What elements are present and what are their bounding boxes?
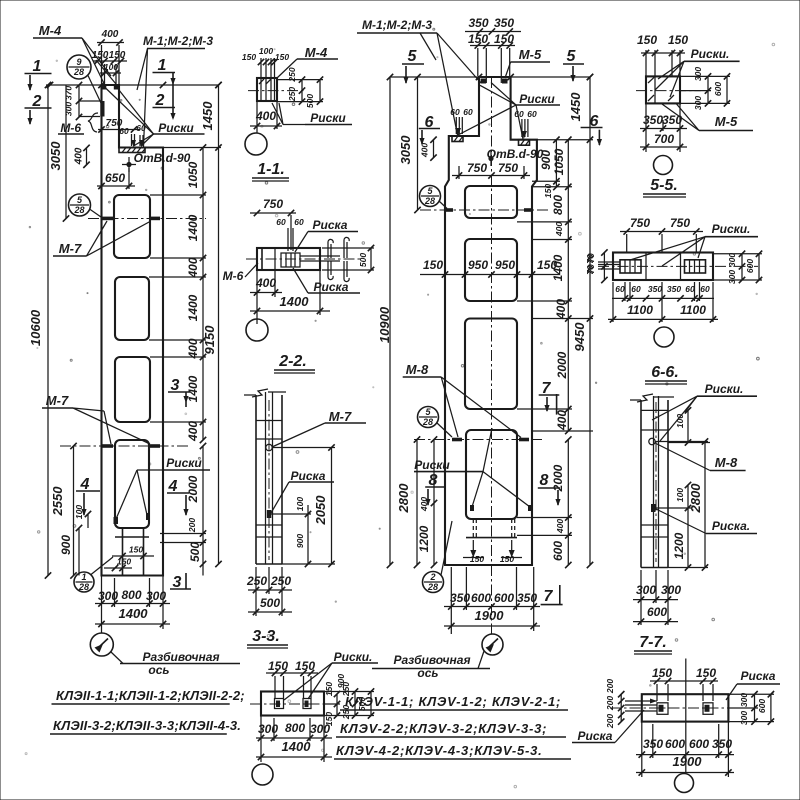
middle column shoulder plate left hatched: [452, 136, 463, 142]
svg-text:100: 100: [675, 488, 685, 502]
svg-text:Риски: Риски: [519, 92, 555, 106]
svg-text:1900: 1900: [673, 754, 703, 769]
svg-text:70: 70: [585, 254, 595, 264]
section 1-1 circle: [245, 133, 267, 155]
svg-text:М-6: М-6: [60, 121, 81, 135]
svg-text:9450: 9450: [572, 322, 587, 352]
svg-text:950: 950: [468, 258, 488, 272]
bottom view circle: [252, 764, 273, 785]
section 3-3 circle marker: [266, 444, 272, 450]
dim 370 300 at M-6 plate: [78, 85, 80, 117]
svg-text:750: 750: [498, 161, 518, 175]
svg-text:60: 60: [463, 107, 473, 117]
svg-text:300: 300: [693, 67, 703, 81]
section 1-1 square: [257, 78, 277, 101]
svg-text:7: 7: [544, 588, 554, 605]
bottom view insert left: [275, 699, 284, 709]
section 2-2 divider 400: [274, 248, 276, 270]
svg-text:300: 300: [661, 583, 681, 597]
section 7-7 axis vertical: [655, 402, 657, 562]
left column axis line 2: [60, 445, 190, 447]
leader Riska right: [726, 684, 737, 700]
svg-text:350: 350: [494, 16, 514, 30]
section 3-3 dim 100: [307, 505, 309, 514]
middle column opening 1: [465, 186, 517, 218]
svg-text:1200: 1200: [417, 525, 431, 552]
svg-text:М-7: М-7: [329, 409, 352, 424]
left column opening 3: [115, 357, 150, 422]
svg-text:Риски: Риски: [158, 121, 194, 135]
section 3-3 axis vertical: [268, 400, 270, 560]
bottom right plan anchor lines: [625, 700, 657, 702]
svg-text:250: 250: [270, 574, 291, 588]
svg-text:300: 300: [727, 270, 737, 284]
dim 2800 mid left: [416, 440, 418, 566]
svg-text:1400: 1400: [280, 294, 310, 309]
circle mark 5/28 at hole level: [69, 194, 91, 216]
svg-text:1200: 1200: [672, 532, 686, 559]
svg-text:1: 1: [158, 57, 167, 74]
section 3-3 risk mark: [267, 510, 272, 518]
mid axis2 risk left: [452, 438, 462, 442]
leader Riska upper 2-2: [295, 232, 308, 253]
svg-text:ось: ось: [417, 666, 438, 680]
risk mark mid slot left: [470, 505, 474, 511]
bottom view right dim 500: [370, 692, 372, 716]
section 2-2 bar: [257, 248, 320, 270]
leaders M-8 mid: [441, 377, 458, 437]
M-6 curly brace: [88, 113, 98, 132]
bottom right insert left: [657, 703, 668, 715]
svg-text:Риски.: Риски.: [691, 47, 730, 61]
svg-text:400: 400: [255, 276, 276, 290]
svg-text:200: 200: [605, 679, 615, 694]
dim 100 left bottom: [87, 514, 89, 528]
svg-text:М-7: М-7: [46, 393, 69, 408]
svg-text:350: 350: [662, 113, 682, 127]
leader 5/28 mid axis1: [439, 201, 447, 209]
svg-text:600: 600: [757, 699, 767, 713]
leader axis circle mid: [478, 651, 484, 669]
svg-text:1: 1: [81, 572, 86, 582]
left column opening 4 bottom: [115, 440, 149, 528]
svg-text:300: 300: [636, 583, 656, 597]
leaders Riski to bolts and top plates: [134, 134, 154, 146]
svg-text:400: 400: [554, 222, 564, 237]
left column M-6 side plate: [100, 101, 104, 117]
svg-text:Риска: Риска: [578, 729, 613, 743]
svg-text:1050: 1050: [552, 148, 566, 175]
svg-text:9: 9: [76, 57, 81, 67]
dim 400 left corbel mid: [433, 140, 435, 158]
risk mark mid slot right: [528, 505, 532, 511]
svg-text:1: 1: [33, 58, 42, 75]
svg-text:350: 350: [667, 284, 681, 294]
svg-text:ось: ось: [148, 663, 169, 677]
svg-text:150: 150: [470, 554, 484, 564]
section 2-2 anchor hook bolts right pair: [344, 237, 349, 258]
dim chain mid right x568: [567, 140, 569, 431]
svg-text:600: 600: [689, 737, 709, 751]
middle column axis line 2: [414, 439, 543, 441]
svg-text:Риска: Риска: [313, 218, 348, 232]
svg-text:150: 150: [117, 557, 131, 567]
leader Riska 3-3: [271, 482, 289, 513]
bottom right plan rect: [642, 694, 729, 721]
svg-text:60: 60: [119, 126, 129, 136]
svg-text:500: 500: [358, 253, 368, 267]
svg-text:300: 300: [727, 253, 737, 267]
scan speckles: [261, 125, 263, 127]
svg-text:400: 400: [186, 338, 200, 359]
leader axis circle: [111, 652, 123, 664]
svg-text:Риски: Риски: [166, 456, 202, 470]
leader Riska 7-7: [656, 509, 706, 534]
left column opening 2: [115, 277, 149, 340]
bottom view right dims 250 250: [354, 692, 356, 716]
bottom right plan right dims 300 300 600: [754, 694, 756, 721]
section 2-2 anchor lines: [300, 255, 340, 257]
svg-text:750: 750: [263, 197, 283, 211]
dim 1450 right outer top: [218, 85, 220, 148]
svg-text:Риска.: Риска.: [712, 519, 750, 533]
svg-text:300: 300: [310, 722, 330, 736]
section 3-3 inner lines: [265, 392, 267, 564]
svg-text:5: 5: [77, 195, 83, 205]
section 3-3 dim 900: [307, 514, 309, 564]
svg-text:М-4: М-4: [39, 23, 62, 38]
middle column opening 2: [465, 239, 517, 301]
section 7-7 dim 100 mid: [687, 485, 689, 508]
section 1-1 inner plate lines: [260, 78, 262, 101]
svg-text:100: 100: [675, 414, 685, 428]
svg-text:1400: 1400: [186, 294, 200, 321]
svg-text:400: 400: [419, 497, 429, 512]
svg-text:60: 60: [276, 217, 286, 227]
section 1-1 right dims 250 250 500: [301, 80, 303, 102]
svg-text:Риска: Риска: [314, 280, 349, 294]
svg-text:Риска: Риска: [741, 669, 776, 683]
svg-text:1100: 1100: [680, 303, 706, 317]
svg-text:2-2.: 2-2.: [278, 353, 307, 370]
svg-text:2000: 2000: [551, 464, 565, 492]
svg-text:150: 150: [242, 52, 256, 62]
svg-text:28: 28: [73, 205, 84, 215]
leader M-5 mid: [505, 62, 511, 78]
svg-text:150: 150: [637, 33, 657, 47]
section 6-6 anchor lines left: [598, 261, 620, 263]
svg-text:60: 60: [450, 107, 460, 117]
svg-text:Риски.: Риски.: [712, 222, 751, 236]
svg-text:Риски: Риски: [414, 458, 450, 472]
bottom right plan left dims 200 200 200: [620, 694, 622, 721]
svg-text:1450: 1450: [200, 101, 215, 131]
svg-text:750: 750: [630, 216, 650, 230]
dim chain mid right bottom: [567, 440, 569, 566]
svg-text:КЛЭV-1-1; КЛЭV-1-2; КЛЭV-2-1;: КЛЭV-1-1; КЛЭV-1-2; КЛЭV-2-1;: [345, 694, 561, 709]
svg-text:200: 200: [187, 518, 197, 533]
leader M-4 to top plates: [82, 38, 104, 84]
risk mark left inner O4: [114, 517, 119, 524]
left column axis 1 risk mark left: [101, 217, 113, 221]
svg-text:8: 8: [540, 472, 549, 489]
svg-text:60: 60: [514, 109, 524, 119]
svg-text:28: 28: [73, 67, 84, 77]
bottom right plan axis vertical: [685, 659, 687, 774]
section 7-7 cross lines: [641, 409, 668, 411]
svg-text:Разбивочная: Разбивочная: [393, 653, 470, 667]
leaders Riski bottom view: [284, 663, 332, 700]
svg-text:350: 350: [468, 16, 488, 30]
svg-text:800: 800: [121, 588, 141, 602]
svg-text:600: 600: [471, 591, 491, 605]
section 5-5 square: [646, 76, 680, 103]
dim 10600 left outer: [47, 85, 49, 576]
dim 400 mid left inner: [433, 440, 435, 504]
axis circle bottom mid: [482, 634, 503, 655]
left column corbel plate hatched: [119, 148, 145, 153]
svg-text:900: 900: [295, 534, 305, 548]
section 6-6 plate left: [620, 260, 641, 273]
svg-text:10600: 10600: [28, 309, 43, 346]
section 3-3 cross lines: [256, 420, 282, 422]
svg-text:2: 2: [429, 572, 435, 582]
svg-text:Риски: Риски: [310, 111, 346, 125]
svg-text:Риски.: Риски.: [334, 650, 373, 664]
svg-text:3050: 3050: [398, 135, 413, 165]
section 2-2 dim 500 right: [370, 248, 372, 270]
svg-text:100: 100: [259, 46, 273, 56]
svg-text:ОтВ.d-90: ОтВ.d-90: [487, 147, 544, 161]
svg-text:150: 150: [129, 545, 143, 555]
section 2-2 left cap line: [261, 248, 263, 270]
bottom view plate (left): [261, 692, 324, 716]
svg-text:60: 60: [700, 284, 710, 294]
top boundary line of left view: [46, 84, 219, 86]
svg-text:350: 350: [712, 737, 732, 751]
svg-text:1400: 1400: [119, 606, 149, 621]
section 7-7 dim 100 top: [687, 410, 689, 442]
svg-text:М-7: М-7: [59, 241, 82, 256]
section 7-7 dim 2800: [704, 442, 706, 568]
section 5-5 top dim lines: [645, 50, 647, 76]
svg-text:950: 950: [495, 258, 515, 272]
svg-text:600: 600: [713, 82, 723, 96]
svg-text:5-5.: 5-5.: [650, 177, 678, 194]
leader 9/28 to M-6 plate: [88, 76, 101, 104]
leaders Riski 1-1: [283, 124, 305, 126]
leaders Riski mid top: [491, 83, 516, 106]
leader M-8 7-7: [655, 443, 710, 471]
leader M-7 3-3: [272, 423, 325, 447]
leader M-4 1-1: [277, 59, 297, 78]
dim chain right inner x203: [202, 148, 204, 441]
section 6-6 axis: [598, 265, 758, 267]
bottom right circle: [675, 774, 694, 793]
leader 5/28 to axis mark: [90, 209, 102, 217]
section 6-6 plan rect: [613, 253, 713, 281]
svg-text:100: 100: [295, 497, 305, 511]
section 3-3 bar outline: [255, 395, 257, 564]
svg-text:1100: 1100: [627, 303, 653, 317]
svg-text:150: 150: [652, 666, 672, 680]
svg-text:2550: 2550: [50, 486, 65, 517]
svg-text:650: 650: [105, 171, 125, 185]
svg-text:600: 600: [647, 605, 667, 619]
leader 2/28: [441, 521, 452, 575]
svg-text:2800: 2800: [688, 483, 703, 514]
svg-text:350: 350: [450, 591, 470, 605]
dim 1200 mid left inner: [433, 503, 435, 565]
svg-text:60: 60: [136, 123, 146, 133]
left shoulder bolts: [455, 117, 457, 134]
svg-text:5: 5: [427, 186, 433, 196]
svg-text:400: 400: [555, 519, 565, 534]
section 6-6 circle: [654, 327, 674, 347]
svg-text:5: 5: [408, 48, 418, 65]
mid axis1 risk right: [524, 208, 532, 212]
risk mark right inner O4: [146, 513, 150, 520]
svg-text:7-7.: 7-7.: [639, 634, 667, 651]
svg-text:350: 350: [648, 284, 662, 294]
dim 10900 left outer mid: [389, 77, 391, 565]
leaders Riski 6-6: [630, 237, 705, 260]
svg-text:М-1;М-2;М-3: М-1;М-2;М-3: [362, 18, 432, 32]
svg-text:400: 400: [420, 143, 430, 158]
svg-text:2000: 2000: [555, 351, 569, 379]
svg-text:60: 60: [685, 284, 695, 294]
svg-text:М-8: М-8: [715, 455, 738, 470]
dim 3050 left: [65, 85, 67, 219]
left column axis line 1: [88, 218, 206, 220]
bottom view axis: [250, 703, 332, 705]
middle column vertical axis: [491, 77, 493, 565]
dim 9450 right outer mid: [589, 77, 591, 565]
svg-text:60: 60: [615, 284, 625, 294]
svg-text:400: 400: [186, 421, 200, 442]
section 6-6 inner dividers: [645, 253, 647, 281]
svg-text:60: 60: [631, 284, 641, 294]
svg-text:60: 60: [294, 217, 304, 227]
svg-text:28: 28: [427, 582, 438, 592]
svg-text:9150: 9150: [202, 325, 217, 355]
section 5-5 axis: [636, 90, 701, 92]
section 2-2 axis: [246, 258, 360, 260]
svg-text:1-1.: 1-1.: [257, 161, 285, 178]
leaders Riski 5-5: [658, 61, 684, 79]
svg-text:1450: 1450: [568, 92, 583, 122]
svg-text:2800: 2800: [396, 483, 411, 514]
svg-text:2000: 2000: [186, 475, 200, 503]
svg-text:2: 2: [155, 92, 165, 109]
leader 5/28 mid axis2: [437, 423, 452, 437]
leader Riska lower 2-2: [293, 268, 308, 293]
leaders Riski 7-7: [652, 396, 697, 420]
svg-text:900: 900: [539, 150, 553, 170]
svg-text:900: 900: [59, 535, 73, 555]
svg-text:60: 60: [527, 109, 537, 119]
section 5-5 right dims 300 300 600: [707, 76, 709, 103]
section 2-2 circle: [246, 319, 268, 341]
left column axis 2 risk mark right: [150, 444, 161, 448]
left column base slot lines: [115, 536, 149, 538]
dim chain right bottom: [202, 446, 204, 576]
section 7-7 circle marker: [649, 438, 655, 444]
svg-text:3-3.: 3-3.: [252, 628, 280, 645]
svg-text:400: 400: [555, 410, 569, 431]
svg-text:500: 500: [260, 596, 280, 610]
section 1-1 axis: [248, 90, 306, 92]
circle mark 5/28 mid axis2: [418, 407, 439, 428]
leaders Riski mid bottom: [483, 428, 492, 472]
svg-text:750: 750: [467, 161, 487, 175]
mid axis2 risk right: [519, 438, 529, 442]
bottom right plan axis horizontal: [610, 707, 756, 709]
top boundary line of middle view: [390, 76, 590, 78]
svg-text:400: 400: [74, 147, 85, 165]
leaders M-1 mid: [437, 33, 481, 83]
dim 9150 right outer: [218, 148, 220, 565]
svg-text:600: 600: [665, 737, 685, 751]
svg-text:3050: 3050: [48, 141, 63, 171]
bottom view right dims 150 900 150: [336, 694, 338, 716]
svg-text:300: 300: [739, 711, 749, 725]
svg-text:1400: 1400: [282, 739, 312, 754]
svg-text:600: 600: [745, 259, 755, 273]
svg-text:400: 400: [554, 299, 568, 320]
mid axis1 risk left: [445, 208, 453, 212]
svg-text:М-4: М-4: [305, 45, 328, 60]
svg-text:М-8: М-8: [406, 362, 429, 377]
svg-text:700: 700: [654, 132, 674, 146]
section 7-7 risk mark: [651, 504, 656, 512]
bottom right insert right: [703, 703, 713, 715]
mid axis vertical extension: [491, 565, 493, 634]
section 3-3 dim 2050: [331, 448, 333, 565]
svg-text:М-5: М-5: [519, 47, 542, 62]
left column axis 2 risk mark left: [101, 444, 113, 448]
left column elevation outline: [102, 85, 164, 576]
hole marker: [126, 162, 131, 167]
dim chain mid left 3050: [417, 77, 419, 210]
svg-text:М-5: М-5: [715, 114, 738, 129]
svg-text:400: 400: [186, 257, 200, 278]
leader 1/28: [91, 557, 113, 575]
section 3-3 break mark top: [252, 389, 268, 397]
circle mark 1/28 bottom: [74, 572, 94, 592]
svg-text:КЛЭII-3-2;КЛЭII-3-3;КЛЭII-4-3.: КЛЭII-3-2;КЛЭII-3-3;КЛЭII-4-3.: [53, 718, 241, 733]
section 7-7 break mark: [637, 394, 653, 402]
section 6-6 plate right: [685, 260, 706, 273]
svg-text:400: 400: [101, 29, 119, 40]
circle mark 5/28 mid axis1: [420, 186, 441, 207]
middle column outline: [445, 77, 537, 565]
section 7-7 bar outline: [640, 400, 642, 568]
middle column slot lines bottom: [466, 537, 517, 539]
leaders M-7 lower to axis2 marks: [73, 408, 104, 411]
leaders Riski to opening marks: [137, 469, 163, 471]
leader M-1 group to corbel bolts: [144, 49, 148, 147]
svg-text:150: 150: [423, 258, 443, 272]
section 7-7 inner lines: [653, 396, 655, 568]
svg-text:КЛЭII-1-1;КЛЭII-1-2;КЛЭII-2-2;: КЛЭII-1-1;КЛЭII-1-2;КЛЭII-2-2;: [56, 688, 245, 703]
svg-text:28: 28: [422, 417, 433, 427]
svg-text:Разбивочная: Разбивочная: [142, 650, 219, 664]
svg-text:5: 5: [425, 407, 431, 417]
middle column opening 4: [466, 430, 517, 519]
middle column opening 3: [465, 319, 517, 410]
leader Riska left: [615, 710, 644, 743]
